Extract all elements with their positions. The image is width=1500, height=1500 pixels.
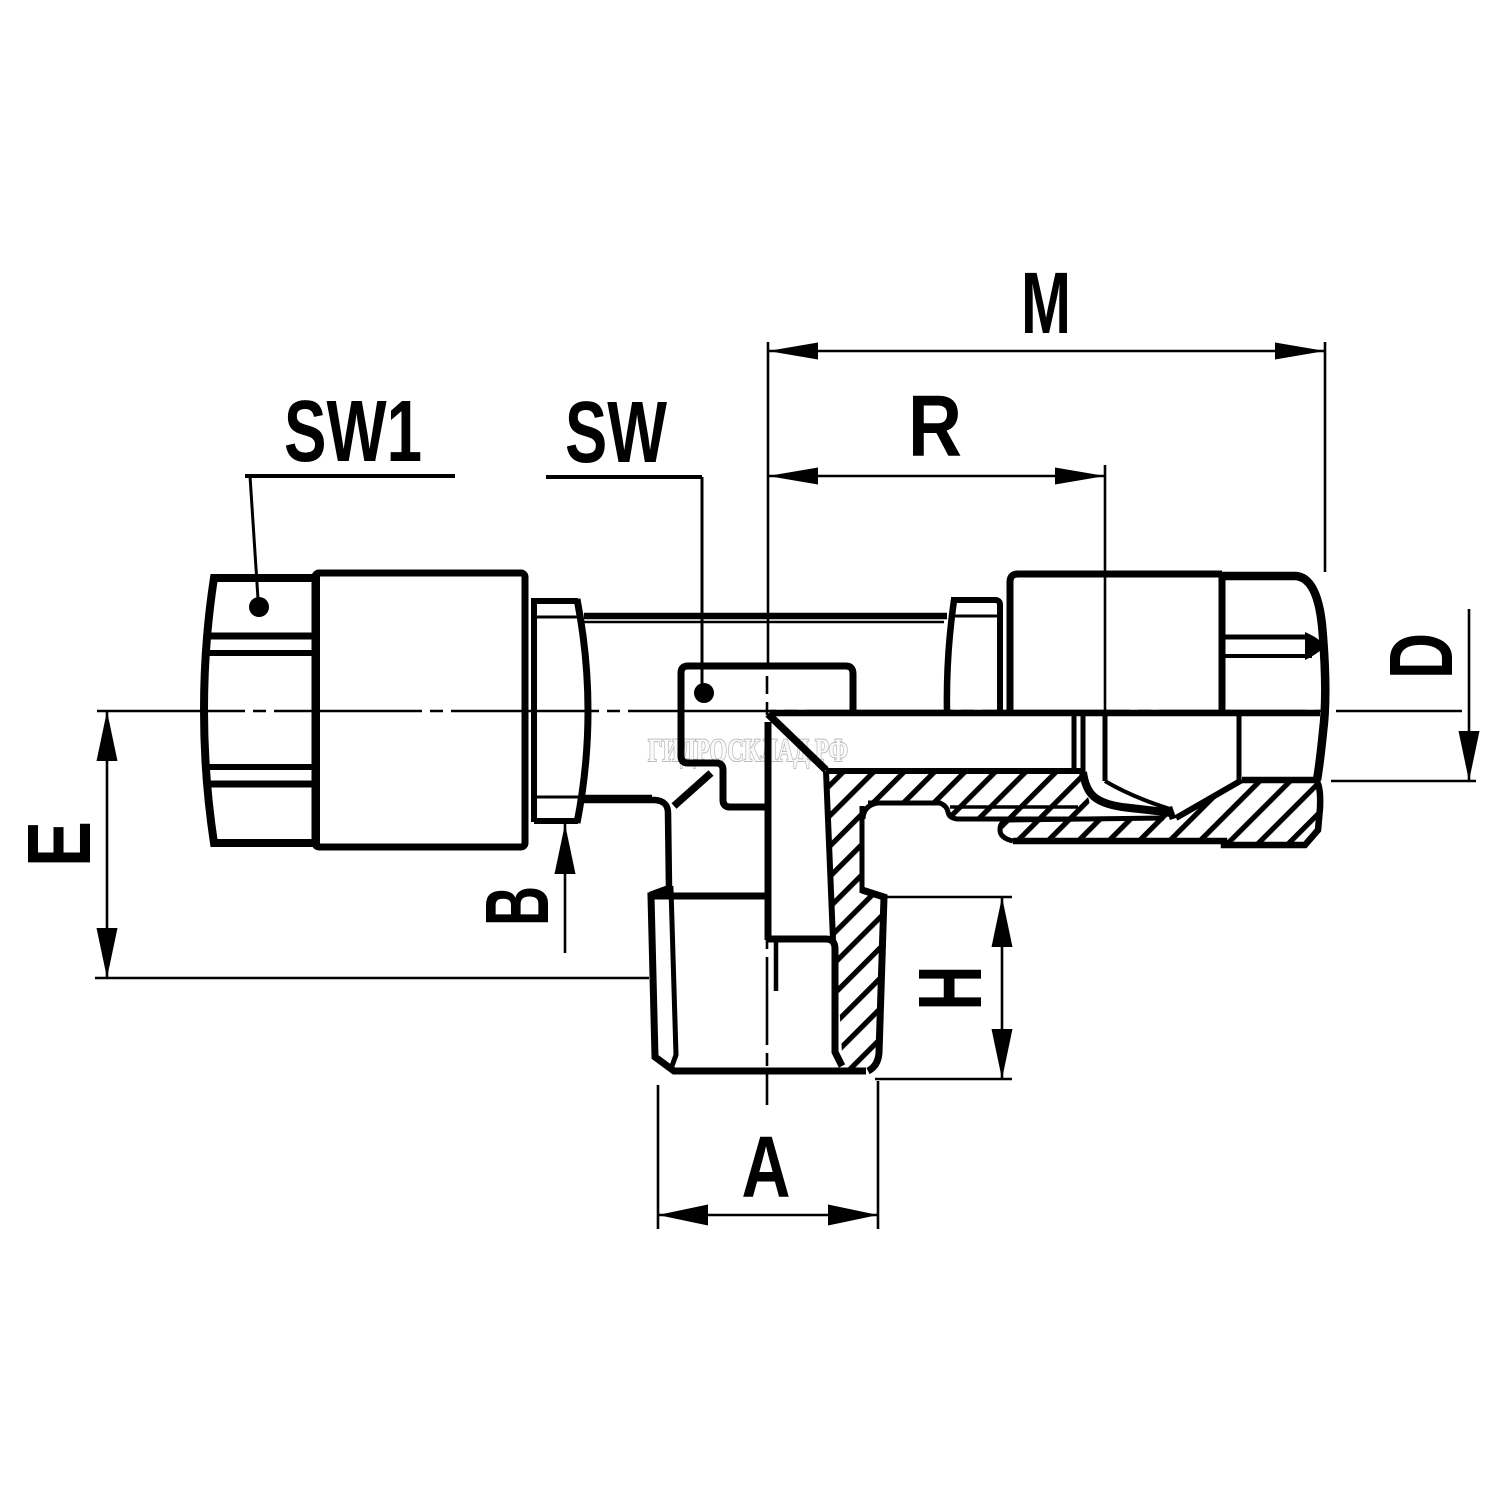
olive smile curve (1083, 772, 1170, 813)
tube top edge (584, 613, 947, 620)
svg-text:M: M (1021, 255, 1071, 352)
tube thread relief thin lines (584, 621, 944, 623)
dimension E (10, 711, 649, 978)
hatched band of right union nut (section) (858, 771, 1092, 818)
svg-text:H: H (901, 966, 1001, 1011)
right body/nut separator (1219, 574, 1226, 713)
bottom stud thread inner line (650, 889, 676, 1066)
band top edge (826, 768, 1082, 774)
hatched bottom wall of right union nut (section) (1000, 780, 1320, 845)
left step ring inner lines (537, 617, 579, 797)
svg-text:R: R (908, 378, 962, 475)
tee body hex chamfer line (674, 773, 711, 806)
tee body section surface line (770, 710, 1320, 717)
olive hook (1169, 807, 1173, 819)
svg-text:B: B (468, 886, 568, 926)
nut bottom wall left cap (1000, 820, 1013, 841)
stud bore shoulder (768, 939, 842, 1066)
dimension H (875, 897, 1013, 1079)
tube end edge inside nut (1103, 713, 1108, 781)
stud top right step (826, 771, 833, 940)
left nut hex cap (204, 578, 316, 843)
left nut body (315, 573, 525, 847)
right fitting body (1010, 574, 1222, 713)
left step ring (534, 598, 578, 822)
svg-text:A: A (742, 1119, 791, 1216)
olive right face (1176, 780, 1242, 818)
right nut outline with arc end (1222, 576, 1325, 780)
right blob surface edge (1242, 778, 1317, 783)
nut counterbore edge (1237, 713, 1242, 780)
tee body hex outline (SW) (681, 666, 853, 807)
olive nose thin edge (1105, 781, 1170, 809)
stud bore thread line (774, 942, 779, 991)
right step ring inner line (950, 615, 998, 618)
right step ring (947, 600, 954, 712)
stud right outer edge (section) (862, 890, 884, 1071)
label SW with leader (546, 384, 714, 703)
nut bottom wall top edge (1009, 818, 1164, 820)
dimension D (1331, 609, 1480, 781)
tee body cone edge (768, 714, 826, 770)
label SW1 with leader (245, 383, 455, 617)
centerline vertical (bottom branch axis) (766, 676, 769, 1105)
right nut inner verticals (section, thread slot) (1072, 713, 1077, 771)
band bottom edges and step (868, 803, 1090, 819)
svg-text:SW1: SW1 (284, 383, 422, 480)
bottom stud outline (male thread, external half) (651, 896, 866, 1071)
dimension R (768, 378, 1105, 712)
dimension M (768, 255, 1325, 666)
svg-text:SW: SW (565, 384, 668, 481)
right nut hex flat lines (1224, 635, 1310, 640)
right nut hex corner shading (1305, 632, 1324, 660)
left nut hex flat lines (207, 633, 314, 640)
svg-text:D: D (1372, 633, 1472, 679)
tube bottom edge into tee body profile (584, 800, 669, 895)
svg-text:E: E (10, 821, 110, 867)
tee body bore edge (vertical cut line) (765, 722, 772, 940)
dimension B (468, 824, 576, 953)
hatched web of tee body (section) (826, 771, 884, 1071)
nut bottom wall bottom edge (1013, 780, 1320, 845)
centerline horizontal (left branch axis) (97, 710, 1462, 713)
dimension A (658, 1081, 878, 1229)
band/column corner (863, 803, 877, 819)
